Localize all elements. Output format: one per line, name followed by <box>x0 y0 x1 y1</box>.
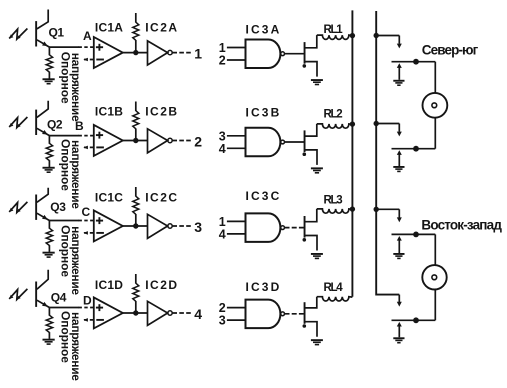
svg-text:напряжение: напряжение <box>69 312 83 381</box>
reference voltage label (row 4) <box>58 311 83 381</box>
junction (RL1 on bus) <box>350 33 355 38</box>
wire (IC3C input 2) <box>227 233 246 235</box>
svg-text:1: 1 <box>194 45 202 61</box>
junction (RL2 on bus) <box>350 121 355 126</box>
wire (east contact to motor M2) <box>434 234 436 265</box>
NAND gate IC3C <box>246 189 285 242</box>
relay coil RL4 <box>317 282 353 301</box>
output node 1 <box>172 45 202 61</box>
output node 3 <box>172 219 202 235</box>
wire node D (emitter to comparator +) <box>49 307 93 309</box>
wire (IC3A input 1) <box>227 47 246 49</box>
inverter IC2B <box>145 105 177 153</box>
relay contact RL1 (changeover) <box>374 33 436 80</box>
svg-text:IC2D: IC2D <box>145 278 177 292</box>
ground (driver row 1) <box>311 79 323 85</box>
svg-text:RL4: RL4 <box>324 282 344 294</box>
wire (motor M1 to south contact) <box>434 118 436 149</box>
op-amp IC1A <box>94 21 123 69</box>
svg-text:2: 2 <box>219 54 226 68</box>
wire (resistor leads row 3) <box>48 221 50 229</box>
svg-text:RL2: RL2 <box>324 109 343 121</box>
svg-text:2: 2 <box>194 133 202 149</box>
op-amp IC1D <box>94 278 123 328</box>
ground (row 2 resistor) <box>43 167 55 173</box>
relay contact RL4 (changeover) <box>392 295 436 338</box>
junction (RL3 on bus) <box>350 206 355 211</box>
svg-text:IC3D: IC3D <box>246 280 280 294</box>
pull-up resistor (row 4) <box>133 274 139 313</box>
ground (contact RL4) <box>393 337 404 343</box>
relay coil RL2 <box>317 109 353 129</box>
relay coil RL3 <box>317 195 353 213</box>
wire (IC3C input 1) <box>227 220 246 222</box>
pull-up resistor (row 3) <box>133 187 139 226</box>
svg-text:D: D <box>83 294 92 308</box>
reference input arrow (comparator - input row 2) <box>83 146 94 150</box>
transistor (relay RL4 driver) <box>303 297 318 337</box>
wire (motor M2 to west contact) <box>434 290 436 321</box>
wire (north contact to motor M1) <box>434 62 436 93</box>
relay contact RL2 (changeover) <box>374 121 436 166</box>
svg-text:4: 4 <box>194 306 202 322</box>
transistor (relay RL1 driver) <box>303 35 318 77</box>
wire node A (emitter to comparator +) <box>49 46 93 48</box>
svg-text:IC3C: IC3C <box>246 189 280 203</box>
wire (IC3B input 1) <box>227 135 246 137</box>
svg-text:напряжение: напряжение <box>69 53 83 122</box>
svg-text:IC2B: IC2B <box>145 105 177 119</box>
svg-text:C: C <box>82 205 91 219</box>
svg-text:Восток-запад: Восток-запад <box>421 218 502 233</box>
wire (IC3C output to driver base) <box>285 227 305 229</box>
resistor (emitter load row 3) <box>46 228 52 245</box>
motor M1 (Север-юг) <box>423 93 448 118</box>
light arrows (photo input row 4) <box>9 289 27 300</box>
reference voltage label (row 1) <box>58 52 83 122</box>
inverter IC2C <box>145 191 177 239</box>
NAND gate IC3B <box>246 106 285 157</box>
ground (contact RL2) <box>393 166 404 172</box>
svg-text:IC1D: IC1D <box>95 278 123 292</box>
resistor (emitter load row 1) <box>46 55 52 72</box>
svg-text:IC2A: IC2A <box>145 21 177 35</box>
light arrows (photo input row 1) <box>9 29 27 40</box>
ground (driver row 2) <box>311 167 323 173</box>
reference input arrow (comparator - input row 4) <box>83 318 94 322</box>
wire (IC3D output to driver base) <box>285 313 305 315</box>
resistor (emitter load row 2) <box>46 143 52 160</box>
NAND gate IC3A <box>246 22 285 68</box>
svg-text:3: 3 <box>219 314 226 328</box>
wire (IC3A output to driver base) <box>285 53 305 55</box>
svg-text:Север-юг: Север-юг <box>422 42 479 57</box>
reference voltage label (row 2) <box>58 139 83 209</box>
phototransistor Q3 <box>35 188 66 221</box>
wire (IC1A output) <box>123 52 148 54</box>
output node 4 <box>172 306 202 322</box>
wire (IC3D input 2) <box>227 319 246 321</box>
ground (driver row 4) <box>311 339 323 345</box>
op-amp IC1C <box>94 191 123 242</box>
svg-text:4: 4 <box>219 227 226 241</box>
svg-text:B: B <box>75 119 84 133</box>
svg-text:IC3B: IC3B <box>246 106 280 120</box>
svg-text:Q1: Q1 <box>49 26 65 40</box>
phototransistor Q2 <box>35 101 63 136</box>
svg-text:IC1A: IC1A <box>95 21 123 35</box>
wire (IC1D output) <box>123 312 148 314</box>
transistor (relay RL3 driver) <box>303 209 318 251</box>
wire (resistor leads row 2) <box>48 136 50 144</box>
inverter IC2D <box>145 278 177 325</box>
svg-text:RL1: RL1 <box>324 24 344 36</box>
svg-text:IC1B: IC1B <box>95 105 123 119</box>
junction (row 3 comparator output) <box>133 223 138 228</box>
svg-text:Q4: Q4 <box>51 291 67 305</box>
ground (row 1 resistor) <box>43 78 55 84</box>
wire (IC1B output) <box>123 140 148 142</box>
wire (IC3A input 2) <box>227 59 246 61</box>
reference input arrow (comparator - input row 3) <box>83 231 94 235</box>
output node 2 <box>172 133 202 149</box>
svg-text:Q3: Q3 <box>50 200 66 214</box>
svg-text:IC1C: IC1C <box>95 191 123 205</box>
svg-text:4: 4 <box>219 142 226 156</box>
svg-text:3: 3 <box>194 219 202 235</box>
relay coil RL1 <box>317 24 353 39</box>
light arrows (photo input row 2) <box>9 117 27 128</box>
light arrows (photo input row 3) <box>9 202 27 213</box>
pull-up resistor (row 1) <box>133 13 139 53</box>
bus wire +V (relay bus) <box>351 10 353 296</box>
wire node C (emitter to comparator +) <box>49 220 93 222</box>
reference voltage label (row 3) <box>58 225 83 295</box>
bus wire +V (contact bus) <box>376 11 399 295</box>
junction (row 4 comparator output) <box>133 310 138 315</box>
pull-up resistor (row 2) <box>133 102 139 141</box>
svg-text:напряжение: напряжение <box>69 140 83 209</box>
resistor (emitter load row 4) <box>46 315 52 332</box>
phototransistor Q1 <box>35 10 64 48</box>
ground (row 3 resistor) <box>43 252 55 258</box>
wire (resistor leads row 1) <box>48 47 50 55</box>
wire node B (emitter to comparator +) <box>49 135 93 137</box>
junction (row 2 comparator output) <box>133 138 138 143</box>
ground (driver row 3) <box>311 253 323 259</box>
transistor (relay RL2 driver) <box>303 124 318 165</box>
NAND gate IC3D <box>246 280 285 328</box>
ground (row 4 resistor) <box>43 339 55 345</box>
wire (resistor leads row 4) <box>48 308 50 316</box>
phototransistor Q4 <box>35 270 67 308</box>
svg-text:IC2C: IC2C <box>145 191 177 205</box>
svg-text:A: A <box>83 29 92 43</box>
motor M2 (Восток-запад) <box>422 265 446 289</box>
reference input arrow (comparator - input row 1) <box>83 58 94 62</box>
op-amp IC1B <box>94 105 123 156</box>
wire (IC3D input 1) <box>227 307 246 309</box>
svg-text:IC3A: IC3A <box>246 22 280 36</box>
ground (contact RL1) <box>393 80 404 86</box>
svg-text:RL3: RL3 <box>324 195 343 207</box>
relay contact RL3 (changeover) <box>374 207 436 253</box>
wire (IC3B output to driver base) <box>285 141 305 143</box>
svg-text:напряжение: напряжение <box>69 226 83 295</box>
wire (IC3B input 2) <box>227 147 246 149</box>
wire (IC1C output) <box>123 225 148 227</box>
ground (contact RL3) <box>393 253 404 259</box>
junction (row 1 comparator output) <box>133 50 138 55</box>
inverter IC2A <box>145 21 177 66</box>
svg-text:Q2: Q2 <box>47 118 63 132</box>
